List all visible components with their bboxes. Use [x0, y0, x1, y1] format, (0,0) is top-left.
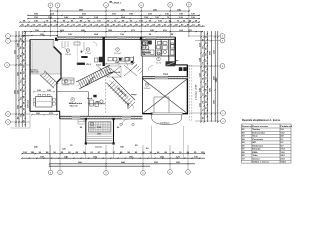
table title: [242, 119, 281, 122]
top dimension line 3: [28, 18, 200, 20]
room tag 1: [65, 49, 72, 56]
internal dim text bottom-left: [36, 113, 53, 115]
wc small text: [87, 98, 100, 104]
sofa living room: [62, 78, 74, 84]
garage top wall hatched: [143, 77, 188, 79]
room table grid: [242, 124, 292, 163]
top dimension line 1: [51, 10, 191, 12]
grid bubble right 5: [221, 111, 226, 116]
internal dim text: [37, 90, 51, 92]
interior wall h93: [57, 91, 88, 93]
grid bubble right 6: [221, 119, 226, 124]
leader arrow living room: [81, 42, 85, 53]
door arc 4: [80, 119, 86, 125]
svg-text:LÕIGE 1: LÕIGE 1: [112, 1, 121, 4]
door arc 3: [123, 62, 128, 67]
spine wall pier grid C: [103, 37, 105, 66]
hall dark bits: [119, 58, 133, 63]
svg-text:Tuba: Tuba: [252, 155, 258, 157]
svg-text:trepp 16x18: trepp 16x18: [108, 71, 121, 74]
right dimension line 4: [210, 31, 212, 122]
bathroom wall v155: [155, 40, 157, 57]
left outside steps: [78, 119, 86, 124]
door threshold bar 1: [81, 56, 87, 58]
right dimension ticks: [200, 33, 218, 122]
car rectangle: [154, 97, 169, 113]
left grid stem lines: [9, 36, 30, 122]
bay steps: [86, 134, 114, 143]
garage right wall: [186, 65, 188, 115]
svg-text:Garaaz: Garaaz: [252, 158, 260, 160]
svg-text:katel: katel: [96, 63, 101, 66]
step wall left-bottom: [59, 111, 61, 119]
bathroom wall v169: [168, 40, 170, 65]
misc marks top rooms: [74, 42, 97, 46]
kitchen text: [69, 102, 83, 107]
small box next to boiler: [95, 58, 98, 62]
grid bubble bottom 9: [58, 170, 63, 175]
corridor door leaf: [128, 103, 129, 109]
bottom dimension labels row3: [78, 161, 180, 164]
right dimension line 1: [200, 31, 202, 122]
garage left wall: [142, 77, 144, 115]
bay corner posts: [85, 118, 115, 145]
step wall to garage: [175, 64, 187, 66]
wall x57 lower: [56, 82, 58, 111]
window 1: [66, 37, 75, 39]
svg-text:27.4 m2: 27.4 m2: [63, 85, 70, 87]
top dimension label row7: [40, 33, 174, 36]
grid bubble left 5: [6, 120, 11, 125]
garage bottom wall: [143, 113, 189, 115]
svg-text:8: 8: [72, 99, 73, 101]
svg-text:9: 9: [91, 124, 92, 126]
svg-text:10: 10: [146, 84, 148, 86]
left dimension line 3: [21, 31, 23, 127]
svg-text:1640: 1640: [215, 77, 218, 83]
interior thin wall x77.7: [77, 40, 79, 67]
bay left wall: [85, 119, 87, 143]
main top wall hatched band: [57, 37, 175, 40]
svg-text:4.8 m2: 4.8 m2: [141, 47, 147, 49]
left dimension line 1: [15, 31, 17, 127]
cross brace X1: [107, 66, 121, 77]
interior wall v86: [87, 92, 89, 117]
section marker LOIGE 1: [110, 1, 122, 4]
terrace top edge dark: [30, 39, 54, 41]
small steps hallway: [130, 60, 143, 73]
sauna bench rects: [142, 41, 149, 50]
room tag 2: [114, 48, 121, 55]
right dimension labels: [198, 35, 218, 119]
svg-text:110.9: 110.9: [280, 162, 286, 164]
door threshold bar 2: [77, 63, 92, 66]
top dimension line 4: [20, 21, 200, 23]
svg-text:K66k: K66k: [252, 152, 258, 154]
bottom-left wall: [30, 110, 60, 112]
bottom dimension line 3: [50, 163, 196, 165]
grid bubble top E: [168, 2, 173, 7]
table cell texts: [242, 125, 293, 164]
svg-text:Pindala m2: Pindala m2: [280, 126, 292, 128]
room tag 9: [89, 122, 95, 129]
bottom grid stem lines: [51, 145, 188, 170]
grid bubble right 4: [220, 64, 225, 69]
sauna bench: [143, 42, 146, 54]
top dimension labels row5: [21, 23, 201, 26]
right outer wall upper: [174, 37, 176, 65]
dark fixtures right: [179, 67, 187, 71]
svg-text:28.6 m2: 28.6 m2: [31, 72, 40, 74]
grid bubble right 3: [220, 38, 225, 43]
svg-text:6: 6: [87, 49, 88, 51]
staircase band B: [106, 77, 135, 108]
top dimension line 7 short: [24, 35, 58, 37]
stacked fixtures right bath: [171, 40, 175, 50]
top grid stem lines: [51, 7, 189, 37]
window 2: [117, 37, 125, 39]
bottom hatched wall band: [60, 116, 143, 119]
svg-text:Ruumi nr: Ruumi nr: [242, 126, 252, 128]
hall fixtures: [118, 58, 133, 62]
top-left pier: [55, 38, 58, 41]
entry platform lines: [62, 41, 68, 47]
room tag 3: [141, 42, 147, 49]
grid bubble top F: [187, 2, 192, 7]
staircase band A: [76, 65, 113, 89]
dark door bar kitchen: [93, 95, 96, 98]
left dimension line 2: [18, 31, 20, 127]
extension lines to dimensions: [11, 112, 184, 167]
terrace right edge double line: [52, 40, 54, 47]
right dimension line 3: [206, 31, 208, 122]
svg-text:varikatus: varikatus: [160, 122, 170, 125]
misc annotation texts: [95, 60, 179, 149]
grid bubble bottom 8: [48, 170, 53, 175]
internal dim line left: [33, 91, 55, 93]
top dimension ticks: [19, 10, 203, 36]
garage X diagonal 1: [143, 79, 187, 113]
grid bubble left 2: [6, 39, 11, 44]
svg-text:WC: WC: [96, 102, 100, 104]
bay right wall: [113, 119, 115, 143]
top dimension labels row4: [23, 19, 198, 22]
grid bubble left 4: [6, 112, 11, 117]
central dashed line: [104, 66, 106, 113]
terrace label: [31, 69, 40, 74]
chamfer wall hatched: [54, 47, 62, 55]
svg-text:Saun: Saun: [252, 136, 258, 138]
svg-text:150 mm: 150 mm: [28, 100, 30, 108]
svg-text:Ruumi nimetus: Ruumi nimetus: [252, 125, 269, 128]
svg-text:WC: WC: [252, 142, 256, 144]
svg-text:Esik-koridor: Esik-koridor: [252, 132, 265, 134]
door arc 1: [62, 47, 68, 53]
grid bubble top 9: [55, 3, 60, 8]
cross brace X2: [124, 65, 137, 76]
canopy below garage: [152, 114, 182, 125]
svg-text:Tambur: Tambur: [252, 129, 260, 131]
svg-text:13.2 m2: 13.2 m2: [114, 53, 121, 55]
room tag 10: [144, 83, 151, 90]
room tag 8: [69, 98, 76, 105]
svg-text:dush: dush: [87, 98, 93, 100]
bay dim texts: [80, 127, 120, 136]
pier at D: [140, 37, 142, 40]
right dimension line 2: [203, 31, 205, 122]
terrace railing line: [32, 42, 34, 75]
svg-text:terrass: terrass: [95, 146, 103, 149]
door arc 5: [122, 119, 128, 125]
bottom dimension line 2: [22, 157, 205, 159]
svg-text:Katlaruum: Katlaruum: [252, 144, 263, 147]
grid bubble bottom E: [168, 170, 173, 175]
top dimension labels row3: [34, 16, 195, 19]
right dimension line 5: [214, 31, 216, 122]
right dimension line 6: [217, 31, 219, 122]
door opening bottom band 1: [72, 116, 80, 118]
svg-text:2.1 m2: 2.1 m2: [156, 63, 162, 65]
corridor door arc: [128, 103, 134, 109]
terrace stair band C: [40, 71, 58, 89]
door arc 2: [148, 66, 153, 71]
grid bubble top D: [139, 3, 144, 8]
bathroom wall h56: [141, 55, 175, 57]
svg-text:9.3 m2: 9.3 m2: [89, 128, 95, 130]
top dimension labels row2: [34, 13, 195, 16]
bathroom cluster dark: [143, 41, 155, 55]
wc fixtures middle: [90, 100, 104, 107]
bottom dimension ticks: [21, 153, 204, 167]
grid bubble bottom D: [141, 171, 146, 176]
window 3: [146, 37, 156, 39]
sauna text: [142, 52, 151, 56]
bath wall v161: [160, 40, 162, 57]
top dimension labels row6: [35, 29, 192, 32]
grid bubble right 2: [220, 34, 225, 39]
svg-text:1. korrus +0.00: 1. korrus +0.00: [196, 84, 198, 100]
garage door opening bottom: [153, 113, 183, 115]
dining table: [33, 94, 55, 107]
svg-text:Pesuruum: Pesuruum: [252, 139, 263, 141]
garage top door opening: [155, 77, 168, 79]
svg-text:VU-1: VU-1: [86, 64, 92, 66]
bottom dimension labels row1: [23, 151, 205, 154]
grid bubble left 3: [5, 63, 10, 68]
left outer wall: [29, 39, 31, 111]
boiler dark box: [99, 57, 104, 62]
sauna wall v141: [140, 40, 142, 57]
grid bubble bottom F: [186, 170, 191, 175]
svg-text:Elutuba: Elutuba: [252, 148, 261, 151]
terrace gray area: [30, 40, 61, 74]
svg-text:32.6 m2: 32.6 m2: [70, 105, 79, 107]
svg-text:6.2 m2: 6.2 m2: [85, 53, 91, 55]
left dimension ticks: [15, 32, 25, 125]
diagonal wall living room: [57, 78, 62, 83]
extra bath fixtures: [157, 46, 168, 56]
bottom dimension line 4: [50, 165, 151, 167]
dashed extension right: [190, 65, 192, 122]
svg-text:Kokku 1. korrus: Kokku 1. korrus: [252, 162, 269, 164]
svg-text:2: 2: [117, 49, 118, 51]
svg-text:kapp: kapp: [163, 74, 169, 76]
grid bubble bottom C: [104, 171, 109, 176]
garage X diagonal 2: [143, 79, 187, 113]
dark hearth block: [166, 61, 176, 66]
room tag 5: [156, 57, 162, 64]
top dimension line 5: [20, 25, 205, 27]
room tag 7: [63, 79, 70, 86]
svg-text:7: 7: [65, 81, 66, 83]
svg-text:12.4 m2: 12.4 m2: [65, 54, 72, 56]
top dimension line 2: [28, 14, 200, 16]
internal dim line bottom-left: [31, 114, 58, 116]
under-building annotations: [34, 145, 149, 151]
bay tiled area: [89, 122, 112, 132]
grid bubble top 8: [48, 3, 53, 8]
column circles bay: [120, 123, 134, 125]
interior wall h104: [88, 103, 105, 105]
left dimension line 4: [24, 31, 26, 127]
bottom dimension line 1: [22, 153, 205, 155]
svg-text:trepp: trepp: [131, 93, 137, 96]
canopy corner posts: [151, 113, 183, 115]
wall x142.5 corridor segment: [142, 56, 144, 77]
svg-text:Ruumide eksplikatsioon 1. korr: Ruumide eksplikatsioon 1. korrus: [242, 119, 281, 122]
top dimension labels row1: [79, 8, 181, 11]
svg-text:5: 5: [158, 59, 159, 61]
room tag 6: [85, 48, 91, 55]
grid bubble left 1: [6, 34, 11, 39]
hall clutter fixtures: [97, 56, 134, 72]
door opening bottom band 2: [122, 116, 131, 118]
bottom dimension labels row2: [40, 156, 198, 159]
wall x61 upper: [60, 54, 62, 79]
right grid stem lines: [188, 36, 221, 121]
left dimension labels: [14, 34, 25, 123]
grid bubble top C: [104, 3, 109, 8]
internal dim line center: [105, 63, 133, 65]
svg-text:21.8 m2: 21.8 m2: [144, 88, 151, 90]
top dimension line 6: [24, 31, 203, 33]
wc fixtures: [157, 42, 174, 56]
svg-text:1: 1: [67, 50, 68, 52]
